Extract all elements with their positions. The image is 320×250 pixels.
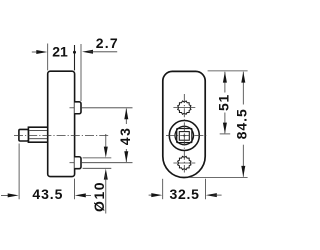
svg-text:43: 43 <box>117 127 133 146</box>
svg-text:Ø10: Ø10 <box>91 181 107 212</box>
svg-text:43.5: 43.5 <box>32 186 63 202</box>
svg-text:84.5: 84.5 <box>234 108 250 139</box>
svg-text:2.7: 2.7 <box>96 35 119 51</box>
svg-text:21: 21 <box>52 44 68 60</box>
svg-text:51: 51 <box>215 94 231 111</box>
svg-text:32.5: 32.5 <box>170 186 200 202</box>
